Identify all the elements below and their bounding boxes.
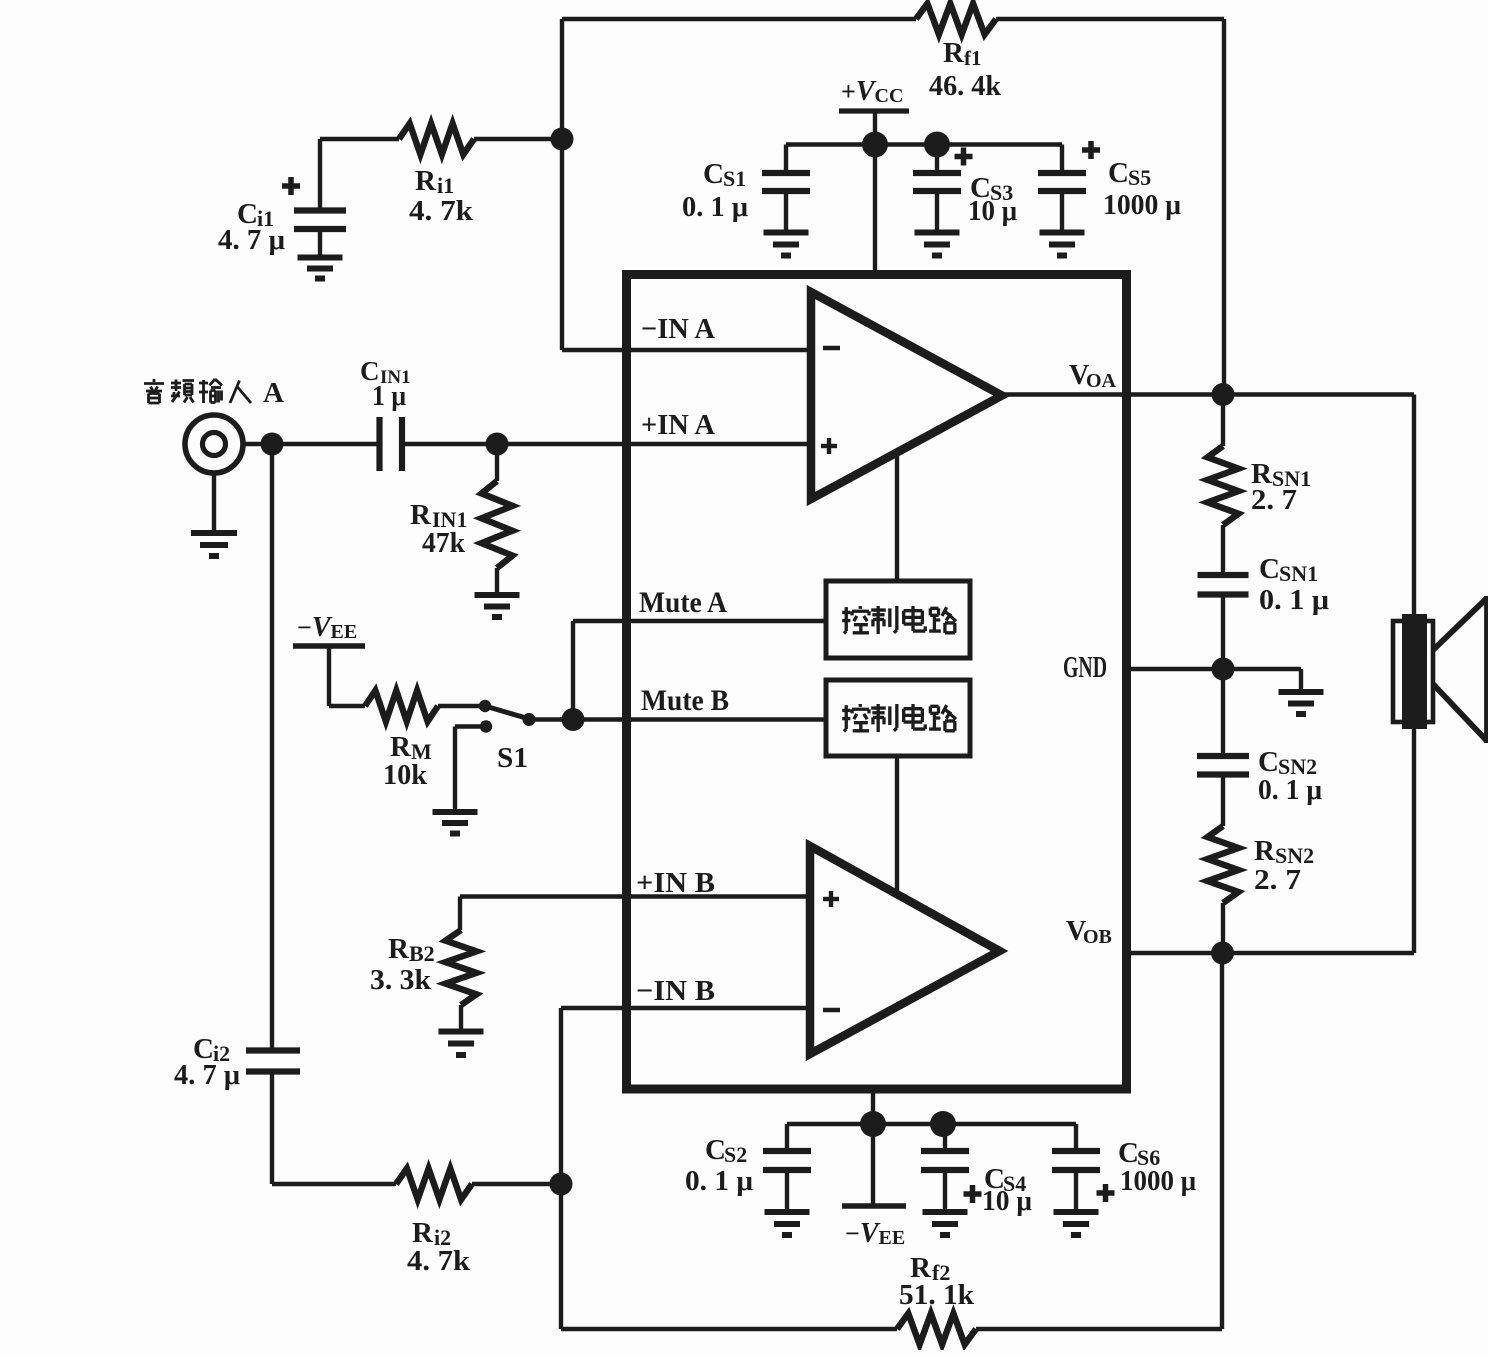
svg-text:OA: OA [1086, 370, 1117, 392]
svg-text:C: C [1259, 553, 1280, 585]
svg-text:10k: 10k [383, 759, 428, 791]
svg-text:S1: S1 [723, 166, 746, 191]
svg-text:S2: S2 [724, 1142, 747, 1167]
svg-text:4. 7 μ: 4. 7 μ [174, 1059, 241, 1091]
svg-text:0. 1 μ: 0. 1 μ [1258, 774, 1323, 806]
svg-text:−IN B: −IN B [636, 975, 715, 1007]
svg-text:Mute A: Mute A [639, 586, 727, 619]
svg-text:f1: f1 [964, 46, 982, 70]
svg-text:+IN B: +IN B [636, 867, 715, 899]
svg-text:3. 3k: 3. 3k [370, 964, 432, 996]
svg-text:C: C [1108, 157, 1129, 189]
svg-text:S5: S5 [1128, 165, 1151, 190]
svg-text:+IN A: +IN A [641, 409, 715, 441]
svg-text:10 μ: 10 μ [982, 1185, 1033, 1217]
svg-text:2. 7: 2. 7 [1254, 864, 1301, 896]
svg-text:1 μ: 1 μ [372, 381, 406, 412]
svg-text:B2: B2 [409, 941, 435, 966]
svg-text:OB: OB [1083, 926, 1112, 948]
svg-text:R: R [415, 165, 437, 197]
svg-text:4. 7k: 4. 7k [407, 1245, 471, 1277]
svg-text:A: A [263, 377, 284, 409]
svg-text:R: R [943, 37, 965, 69]
svg-text:R: R [1254, 835, 1276, 867]
svg-text:4. 7 μ: 4. 7 μ [218, 224, 286, 256]
svg-text:46. 4k: 46. 4k [929, 70, 1002, 102]
svg-text:GND: GND [1063, 649, 1107, 684]
svg-text:2. 7: 2. 7 [1251, 484, 1297, 516]
svg-text:0. 1 μ: 0. 1 μ [682, 191, 749, 223]
svg-text:4. 7k: 4. 7k [409, 195, 474, 227]
svg-text:C: C [703, 158, 724, 190]
svg-text:0. 1 μ: 0. 1 μ [685, 1165, 754, 1197]
svg-text:SN1: SN1 [1279, 561, 1318, 586]
svg-text:−IN A: −IN A [641, 313, 715, 345]
svg-text:C: C [705, 1134, 726, 1166]
svg-text:0. 1 μ: 0. 1 μ [1259, 584, 1330, 616]
svg-text:Mute B: Mute B [641, 684, 729, 717]
svg-text:47k: 47k [422, 527, 466, 559]
svg-text:R: R [388, 933, 410, 965]
svg-text:51. 1k: 51. 1k [899, 1279, 975, 1311]
svg-text:10 μ: 10 μ [968, 195, 1018, 227]
svg-text:1000 μ: 1000 μ [1120, 1165, 1197, 1197]
svg-text:S1: S1 [497, 742, 528, 774]
svg-text:1000 μ: 1000 μ [1103, 189, 1182, 221]
